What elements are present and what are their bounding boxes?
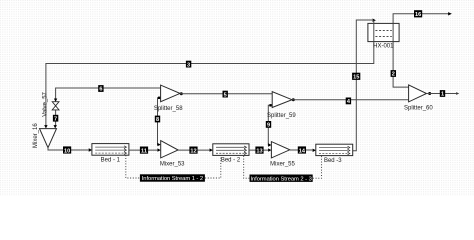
arrowhead stream 16 exit [448, 12, 452, 15]
svg-text:Mixer_16: Mixer_16 [33, 123, 39, 148]
svg-text:Bed -3: Bed -3 [324, 158, 342, 164]
wire stream 2: HX-001 bottom-right pipe down to Splitter_60 upper inlet [393, 42, 409, 88]
node 9 [266, 121, 271, 129]
wire stream 5: Splitter_58 apex to Splitter_59 inlet [180, 93, 272, 95]
port square Splitter_58 lower [158, 97, 160, 99]
wire stream 3: HX-001 bottom-left pipe down, long run left, drop to Mixer_16 [46, 42, 374, 127]
node 10 [63, 146, 71, 154]
node 8 [155, 116, 160, 124]
node 7 [53, 115, 58, 123]
arrowhead into Mixer_53 upper inlet [157, 143, 160, 146]
node 2 [391, 70, 396, 78]
svg-text:10: 10 [64, 148, 70, 154]
wire stream 8: Splitter_58 lower port down to Mixer_53 upper inlet [158, 98, 161, 145]
arrowhead into Bed-2 [210, 148, 213, 151]
arrowhead into Valve_57 [54, 99, 57, 102]
wire stream 16: HX-001 top-right pipe to exit [393, 14, 448, 24]
mixer Mixer_16 [33, 123, 57, 148]
information stream 2 - 3 dotted link [244, 156, 250, 178]
node 13 [255, 147, 263, 155]
arrowhead into Mixer_53 lower inlet [157, 148, 160, 151]
bed Bed-3 [316, 144, 353, 164]
wire stream 9: Splitter_59 lower port down to Mixer_55 upper inlet [268, 105, 272, 145]
node 12 [189, 147, 197, 155]
svg-text:8: 8 [156, 117, 159, 123]
svg-text:Splitter_60: Splitter_60 [404, 105, 433, 111]
node 11 [140, 147, 148, 155]
splitter Splitter_59 [267, 92, 296, 119]
svg-text:5: 5 [224, 92, 227, 98]
svg-text:Mixer_53: Mixer_53 [160, 162, 185, 168]
arrowhead into Mixer_55 lower inlet [268, 148, 271, 151]
node junction at Splitter_58 apex [180, 92, 183, 95]
wire stream 6: Splitter_58 left port to Valve_57 top [56, 88, 161, 101]
node 16 [414, 10, 422, 18]
svg-text:13: 13 [256, 148, 262, 154]
node 6 [98, 85, 103, 93]
node 4 [346, 98, 351, 106]
node junction at Splitter_60 apex [428, 92, 431, 95]
svg-text:2: 2 [392, 72, 395, 78]
svg-text:12: 12 [190, 148, 196, 154]
svg-text:6: 6 [99, 87, 102, 93]
mixer Mixer_53 [160, 141, 185, 168]
wire stream 12: Mixer_53 outlet to Bed-2 [178, 149, 209, 151]
wire stream 15: Bed-3 outlet up to HX-001 top-left [353, 20, 372, 151]
bed Bed-2 [213, 144, 249, 164]
svg-text:9: 9 [267, 123, 270, 129]
svg-text:16: 16 [415, 12, 421, 18]
heat exchanger HX-001 [368, 20, 399, 49]
svg-text:1: 1 [441, 92, 444, 98]
svg-text:Information Stream 1 - 2: Information Stream 1 - 2 [142, 176, 203, 182]
wire stream 13: Bed-2 outlet to Mixer_55 [249, 149, 268, 151]
wire stream 4: Splitter_59 apex to Splitter_60 lower inlet [292, 99, 409, 101]
svg-text:3: 3 [187, 62, 190, 68]
node 3 [186, 61, 191, 69]
svg-text:Information Stream 2 - 3: Information Stream 2 - 3 [250, 176, 311, 182]
port square Splitter_59 lower [269, 104, 271, 106]
svg-text:Bed - 2: Bed - 2 [221, 158, 241, 164]
arrowhead into Mixer_16 right inlet [54, 125, 57, 128]
svg-text:HX-001: HX-001 [373, 44, 394, 50]
svg-text:Splitter_59: Splitter_59 [267, 113, 296, 119]
arrowhead into Bed-1 [89, 148, 92, 151]
svg-text:11: 11 [141, 148, 147, 154]
splitter Splitter_58 [154, 85, 183, 112]
wire stream 11: Bed-1 outlet to Mixer_53 [129, 149, 157, 151]
svg-text:Splitter_58: Splitter_58 [154, 106, 183, 112]
svg-text:Bed - 1: Bed - 1 [101, 158, 121, 164]
svg-text:14: 14 [299, 148, 306, 154]
node 1 [440, 90, 445, 98]
svg-text:7: 7 [54, 116, 57, 122]
information stream 2 - 3 label [250, 175, 313, 183]
node 5 [223, 91, 228, 99]
svg-text:Valve_57: Valve_57 [43, 91, 49, 116]
splitter Splitter_60 [404, 85, 433, 112]
node 15 [352, 73, 360, 81]
wire stream 1: Splitter_60 apex to exit [427, 93, 457, 95]
valve V Valve_57 [43, 91, 59, 116]
information stream 1 - 2 label [140, 174, 205, 182]
arrowhead into Bed-3 [313, 149, 316, 152]
arrowhead into HX-001 left pipe [373, 19, 376, 22]
arrowhead into Mixer_55 upper inlet [268, 143, 271, 146]
wire stream 14: Mixer_55 outlet to Bed-3 [290, 149, 313, 151]
node junction at Splitter_59 apex [292, 98, 295, 101]
svg-text:Mixer_55: Mixer_55 [270, 162, 295, 168]
mixer Mixer_55 [270, 142, 295, 168]
svg-text:15: 15 [353, 75, 359, 81]
bed Bed-1 [92, 144, 129, 164]
arrowhead stream 1 exit [456, 92, 459, 95]
node 14 [298, 146, 306, 154]
information stream 1 - 2 dotted link [126, 155, 140, 178]
wire stream 10: Mixer_16 outlet to Bed-1 [48, 148, 89, 150]
arrowhead into Mixer_16 left inlet [44, 125, 47, 128]
wire stream 7: Valve_57 bottom to Mixer_16 right inlet [55, 110, 57, 126]
